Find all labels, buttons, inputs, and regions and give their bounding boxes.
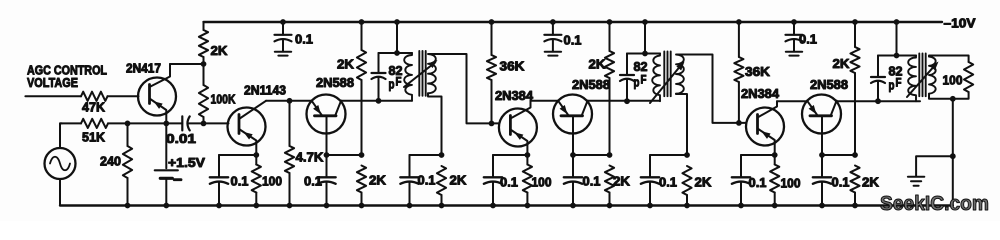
- transistor Q3 2N588 emitter leg: [312, 101, 323, 116]
- wire ground bus (bottom): [60, 204, 953, 206]
- svg-text:0.1: 0.1: [231, 175, 249, 189]
- resistor 240: [127, 123, 129, 146]
- svg-text:2K: 2K: [369, 174, 386, 188]
- node divider top bus stage2: [359, 19, 365, 25]
- svg-text:0.1: 0.1: [304, 175, 322, 189]
- transformer T3 core: [918, 54, 920, 97]
- wire 47K to Q1 base: [108, 95, 139, 97]
- svg-text:F: F: [641, 75, 647, 87]
- transistor Q1 2N417 base bar: [148, 85, 151, 104]
- node battery ground: [163, 203, 169, 209]
- transistor Q6 collector lead: [758, 101, 778, 117]
- svg-text:F: F: [896, 78, 902, 90]
- signal source generator: [45, 148, 76, 179]
- node bypass cap 2 bus: [550, 19, 556, 25]
- wire tank2 secondary bottom: [676, 94, 687, 155]
- svg-text:+1.5V: +1.5V: [168, 156, 206, 170]
- node bypass cap 1 bus: [280, 19, 286, 25]
- svg-text:p: p: [889, 79, 895, 93]
- node divider top bus stage6: [852, 19, 858, 25]
- resistor 2K divider upper stage4: [609, 22, 611, 51]
- transistor Q4 collector lead: [510, 101, 530, 119]
- capacitor 0.1 bypass 1: [282, 22, 284, 35]
- svg-text:F: F: [396, 77, 402, 89]
- ground bypass 3: [786, 51, 802, 53]
- svg-text:0.1: 0.1: [564, 34, 582, 48]
- wire tank1 top rail: [379, 52, 413, 54]
- transistor Q4 2N384 base bar: [509, 116, 512, 135]
- svg-text:0.1: 0.1: [832, 176, 850, 190]
- node 0.1 ground stage5: [738, 203, 744, 209]
- node Q6 emitter tap: [772, 152, 778, 158]
- svg-text:2N588: 2N588: [316, 76, 354, 90]
- transistor Q6 2N384 body: [746, 108, 784, 146]
- node divider tap stage2: [359, 152, 365, 158]
- wire output ground branch: [916, 156, 953, 176]
- wire base tap to divider: [327, 154, 362, 156]
- node divider ground stage6: [852, 203, 858, 209]
- wire tank2 top rail: [627, 53, 660, 55]
- node Q4 emitter tap: [525, 152, 531, 158]
- svg-text:2N384: 2N384: [741, 87, 779, 101]
- transistor Q5 2N588 body: [553, 95, 592, 134]
- svg-text:2N417: 2N417: [126, 62, 161, 76]
- svg-text:2K: 2K: [450, 174, 467, 188]
- capacitor 0.1 bypass 3: [793, 22, 795, 35]
- svg-text:2N384: 2N384: [495, 89, 533, 103]
- node Q1 emitter / battery junction: [163, 121, 169, 127]
- wire tank2 return tap to 0.1: [650, 154, 687, 156]
- transistor Q3 base lead: [326, 116, 328, 155]
- resistor 2K tank1 return: [437, 166, 446, 195]
- svg-text:240: 240: [100, 155, 121, 169]
- wire tank1 secondary bottom: [428, 93, 442, 155]
- transistor Q7 2N588 collector leg: [831, 101, 837, 116]
- svg-text:36K: 36K: [745, 65, 770, 79]
- wire source bottom to ground bus: [59, 179, 61, 206]
- svg-text:2K: 2K: [589, 58, 606, 72]
- transistor Q1 emitter lead: [150, 99, 167, 124]
- svg-text:–10V: –10V: [944, 17, 977, 31]
- svg-text:0.1: 0.1: [583, 175, 601, 189]
- node tank3 feed: [894, 19, 900, 25]
- node divider tap stage4: [607, 152, 613, 158]
- svg-text:2K: 2K: [337, 58, 354, 72]
- svg-text:0.01: 0.01: [166, 132, 196, 146]
- transistor Q7 2N588 emitter leg: [807, 101, 818, 116]
- resistor 4.7K: [289, 101, 291, 146]
- wire Q5 base tap to divider: [573, 154, 610, 156]
- svg-text:p: p: [634, 76, 640, 90]
- resistor 2K divider lower stage6: [850, 166, 859, 193]
- svg-text:100: 100: [532, 176, 552, 190]
- svg-text:0.1: 0.1: [295, 33, 313, 47]
- node 4.7K top: [287, 98, 293, 104]
- node 240 ground: [125, 203, 131, 209]
- capacitor 0.1 bypass 2: [552, 22, 554, 35]
- transformer T3 primary winding: [908, 56, 916, 102]
- wire Q6 collector to Q7 emitter: [777, 100, 807, 102]
- svg-text:SeekIC.com: SeekIC.com: [880, 193, 989, 215]
- wire tank3 secondary bottom to load: [929, 92, 969, 99]
- transistor Q7 base lead: [821, 116, 823, 155]
- node tank1 secondary return tap: [439, 152, 445, 158]
- wire base line to Q2: [204, 122, 229, 124]
- node output ground branch: [950, 153, 956, 159]
- svg-text:82: 82: [889, 65, 903, 79]
- wire Q7 collector to tank3: [837, 100, 921, 102]
- transformer T2 core: [663, 52, 665, 97]
- resistor 100K: [203, 64, 205, 85]
- wire AGC input to 47K: [25, 95, 81, 97]
- svg-text:100K: 100K: [211, 93, 236, 107]
- wire Q2 collector to Q3 emitter: [266, 100, 312, 102]
- battery minus sign: [174, 178, 181, 181]
- wire -10V supply bus (top): [204, 21, 943, 23]
- transistor Q5 base lead: [572, 116, 574, 155]
- capacitor 82pF tank3: [877, 56, 879, 78]
- transistor Q2 collector lead: [239, 101, 266, 119]
- node tank1 2K ground: [439, 203, 445, 209]
- transistor Q2 2N1143 body: [228, 108, 266, 146]
- node Q5 base tap: [570, 152, 576, 158]
- node 4.7K ground: [287, 203, 293, 209]
- svg-text:2K: 2K: [613, 175, 630, 189]
- wire Q6 emitter tap to 0.1: [741, 154, 775, 156]
- svg-text:2K: 2K: [695, 176, 712, 190]
- capacitor 0.1 base stage6: [821, 155, 823, 177]
- svg-text:VOLTAGE: VOLTAGE: [27, 76, 78, 90]
- wire tank1 secondary top to Q4 base: [429, 54, 499, 123]
- node output ground drop: [950, 96, 956, 102]
- transistor Q3 2N588 body: [307, 95, 346, 134]
- transistor Q5 2N588 base bar: [561, 114, 583, 117]
- transistor Q3 2N588 base bar: [315, 114, 337, 117]
- transistor Q2 emitter lead: [239, 129, 256, 155]
- capacitor 82pF tank2: [626, 54, 628, 76]
- svg-text:p: p: [389, 78, 395, 92]
- node tank1 cap bottom: [376, 98, 382, 104]
- svg-text:100: 100: [943, 74, 963, 88]
- node Q7 base tap: [819, 152, 825, 158]
- ground bypass 1: [275, 51, 291, 53]
- resistor 51K: [81, 119, 108, 128]
- wire tank1 return tap to 0.1: [410, 154, 442, 156]
- transformer T2 primary winding: [652, 54, 660, 102]
- resistor 2K collector load: [203, 22, 205, 30]
- node 0.1 ground stage3: [490, 203, 496, 209]
- transistor Q1 2N417 body: [138, 78, 176, 116]
- svg-text:4.7K: 4.7K: [296, 151, 324, 165]
- node base cap ground stage2: [324, 203, 330, 209]
- wire Q5 collector to tank2: [588, 100, 661, 102]
- node 36K / Q4 base: [489, 121, 495, 127]
- svg-text:100: 100: [781, 177, 801, 191]
- node 100 ground stage5: [772, 203, 778, 209]
- transformer T3 tuning arrow: [907, 64, 936, 97]
- node 100K bottom / Q2 base line: [201, 121, 207, 127]
- svg-text:0.1: 0.1: [418, 174, 436, 188]
- capacitor 0.1 emitter bypass stage1: [218, 155, 220, 177]
- transformer T1 core: [418, 51, 420, 96]
- capacitor 0.01 coupling: [166, 122, 182, 124]
- transistor Q7 2N588 body: [802, 95, 841, 134]
- node 0.1 ground stage1: [216, 203, 222, 209]
- node tank2 feed: [642, 19, 648, 25]
- transistor Q7 2N588 base bar: [810, 114, 832, 117]
- resistor 36K stage5: [738, 22, 740, 57]
- svg-text:100: 100: [262, 175, 282, 189]
- wire source top to 51K line: [60, 123, 62, 148]
- transformer T2 tuning arrow: [650, 64, 682, 103]
- wire Q7 base tap to divider: [822, 154, 855, 156]
- wire Q1 collector to 2K/100K node: [170, 63, 204, 65]
- wire tank2 secondary top to Q6 base: [677, 55, 747, 123]
- transistor Q5 2N588 emitter leg: [558, 101, 569, 116]
- svg-text:2N588: 2N588: [572, 78, 610, 92]
- svg-text:51K: 51K: [82, 131, 105, 145]
- svg-text:82: 82: [634, 60, 648, 74]
- svg-text:0.1: 0.1: [659, 176, 677, 190]
- resistor 2K divider lower stage4: [605, 166, 614, 193]
- capacitor 82pF tank1: [378, 53, 380, 73]
- node 36K top stage3: [489, 19, 495, 25]
- node tank2 2K ground: [684, 203, 690, 209]
- node base cap ground stage4: [570, 203, 576, 209]
- resistor 100 emitter stage1: [252, 165, 261, 193]
- transformer T1 primary winding: [404, 53, 412, 101]
- node Q2 emitter tap: [253, 152, 259, 158]
- wire tank3 top rail: [878, 55, 916, 57]
- node tank2 cap bottom: [624, 98, 630, 104]
- wire output drop to ground bus: [952, 99, 954, 206]
- transistor Q3 2N588 collector leg: [335, 101, 341, 116]
- wire Q4 collector to Q5 emitter: [531, 100, 559, 102]
- node 2K / 100K / Q1 collector: [201, 61, 207, 67]
- resistor 36K stage3: [491, 22, 493, 55]
- resistor 100 emitter stage5: [770, 165, 779, 193]
- transistor Q1 collector lead: [150, 64, 171, 87]
- capacitor 0.1 base stage2: [326, 155, 328, 177]
- node divider top bus stage4: [607, 19, 613, 25]
- svg-text:0.1: 0.1: [799, 33, 817, 47]
- node 100 ground stage1: [253, 203, 259, 209]
- transformer T1 tuning arrow: [404, 62, 435, 87]
- svg-text:0.1: 0.1: [500, 176, 518, 190]
- transistor Q4 emitter lead: [510, 130, 527, 156]
- wire 51K line left: [60, 122, 81, 124]
- resistor 2K divider upper stage2: [361, 22, 363, 50]
- transistor Q2 2N1143 base bar: [238, 115, 241, 134]
- node 240 top junction: [125, 121, 131, 127]
- svg-text:0.1: 0.1: [749, 176, 767, 190]
- capacitor 0.1 base stage4: [572, 155, 574, 177]
- node base cap ground stage6: [819, 203, 825, 209]
- node tank1 feed: [394, 19, 400, 25]
- battery +1.5V: [165, 123, 167, 168]
- node tank3 cap bottom: [875, 98, 881, 104]
- svg-text:2N1143: 2N1143: [244, 84, 286, 98]
- node 36K top stage5: [736, 19, 742, 25]
- node 100 ground stage3: [525, 203, 531, 209]
- signal source sine wave: [50, 157, 70, 171]
- resistor 2K divider lower stage2: [357, 166, 366, 193]
- wire 51K to battery junction: [108, 122, 166, 124]
- ground bypass 2: [545, 51, 561, 53]
- svg-text:2K: 2K: [862, 176, 879, 190]
- node Q3 base tap: [324, 152, 330, 158]
- transformer T2 secondary winding: [676, 55, 684, 94]
- resistor 2K divider upper stage6: [854, 22, 856, 47]
- wire Q4 emitter tap to 0.1: [493, 154, 527, 156]
- resistor 47K: [81, 92, 108, 101]
- resistor 100 emitter stage3: [523, 165, 532, 193]
- svg-text:36K: 36K: [500, 60, 525, 74]
- transformer T1 secondary winding: [428, 54, 436, 93]
- resistor 2K tank2 return: [682, 166, 691, 195]
- node divider ground stage4: [607, 203, 613, 209]
- node divider tap stage6: [852, 152, 858, 158]
- svg-text:2K: 2K: [211, 44, 228, 58]
- transistor Q6 2N384 base bar: [756, 115, 759, 134]
- capacitor 0.1 emitter stage3: [492, 155, 494, 177]
- svg-text:2N588: 2N588: [810, 78, 848, 92]
- node tank2 secondary return tap: [684, 152, 690, 158]
- wire tank3 secondary top to load: [929, 56, 969, 63]
- ground output: [908, 176, 924, 178]
- capacitor 0.1 emitter stage5: [740, 155, 742, 177]
- node tank1 0.1 ground: [407, 203, 413, 209]
- capacitor 0.1 tank1 return: [409, 155, 411, 177]
- capacitor 0.1 tank2 return: [649, 155, 651, 177]
- transistor Q4 2N384 body: [499, 109, 537, 147]
- svg-text:47K: 47K: [82, 101, 105, 115]
- wire emitter tap to 0.1 cap: [219, 154, 256, 156]
- resistor 100 load: [964, 62, 973, 92]
- transformer T3 secondary winding: [929, 57, 936, 94]
- node tank2 0.1 ground: [647, 203, 653, 209]
- transistor Q5 2N588 collector leg: [582, 101, 588, 116]
- transistor Q6 emitter lead: [758, 129, 775, 156]
- svg-text:2K: 2K: [833, 57, 850, 71]
- wire Q3 collector to tank1: [341, 100, 412, 102]
- node 36K / Q6 base: [736, 120, 742, 126]
- node bypass cap 3 bus: [791, 19, 797, 25]
- node divider ground stage2: [359, 203, 365, 209]
